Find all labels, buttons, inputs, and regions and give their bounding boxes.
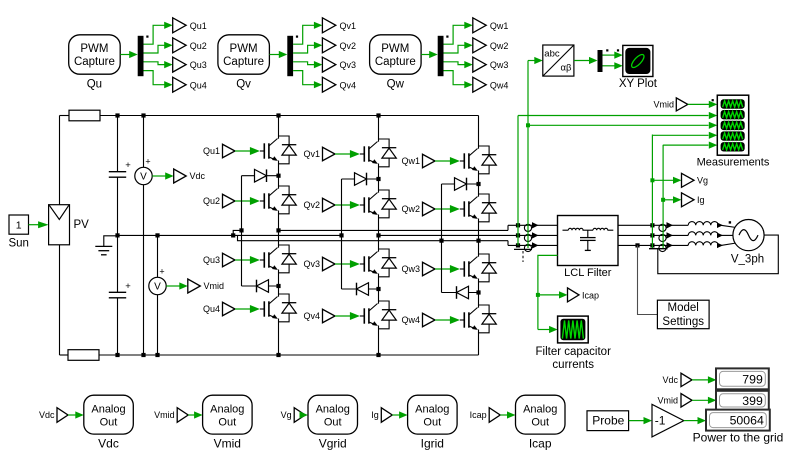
label LCL Filter: [564, 267, 612, 279]
wire top rail: [100, 115, 479, 117]
svg-text:Probe: Probe: [592, 413, 624, 427]
label Power to the grid: [693, 430, 784, 444]
label Vmid (analog out tag): [154, 410, 175, 420]
svg-text:Qv4: Qv4: [340, 80, 357, 90]
resistor bottom damping: [60, 350, 100, 361]
label Qw4: [490, 80, 509, 90]
label Qv3: [303, 259, 320, 269]
svg-text:Vmid: Vmid: [214, 437, 241, 451]
svg-text:Igrid: Igrid: [421, 437, 444, 451]
wire Qu demux out 1: [144, 22, 173, 45]
svg-text:Analog: Analog: [316, 403, 350, 415]
svg-text:Ig: Ig: [371, 410, 379, 420]
from tag Qv2: [323, 198, 336, 212]
from tag Vdc (display): [681, 373, 692, 387]
wire gate Qw3: [435, 265, 464, 273]
capacitor C1 (upper DC-link): [109, 116, 131, 236]
wire gain to display: [684, 417, 706, 424]
wire probe2 riser Ig: [662, 145, 664, 248]
goto tag Vdc: [174, 169, 187, 183]
node bottom rail / Vmid meter: [155, 353, 159, 357]
svg-text:Sun: Sun: [8, 238, 28, 250]
wire probe1 a to LCL: [534, 224, 558, 226]
node phase output leg Qv: [376, 233, 380, 237]
svg-text:Qv4: Qv4: [303, 311, 320, 321]
label Vg: [697, 176, 708, 186]
wire neutral spur lower: [238, 235, 442, 240]
svg-text:Qu4: Qu4: [203, 304, 220, 314]
demux Qu: [138, 36, 149, 77]
label Qv4: [303, 311, 320, 321]
wire LCL out c: [618, 244, 688, 246]
wire Qw to demux: [421, 51, 438, 58]
wire Ig to analog out: [392, 411, 407, 418]
node clamp lower leg Qu: [276, 284, 280, 288]
label Qv2: [340, 41, 357, 51]
display Vmid 399: [716, 391, 769, 410]
label Vg (analog out tag): [281, 410, 292, 420]
wire Vinv to scope: [518, 112, 717, 119]
wire gate Qw4: [435, 316, 464, 324]
label Icap: [529, 437, 552, 451]
svg-text:Qw1: Qw1: [401, 156, 420, 166]
node bottom rail / leg v: [376, 353, 380, 357]
node voltage tap 2 phase a: [650, 223, 654, 227]
svg-text:Vdc: Vdc: [39, 410, 55, 420]
goto tag Qv1: [322, 18, 335, 33]
from tag Qu4: [223, 302, 236, 316]
wire icap from LCL: [538, 255, 558, 329]
block Analog Out Vdc: [84, 395, 134, 434]
node model settings tap: [635, 243, 639, 247]
wire Qv demux out 1: [293, 22, 322, 45]
wire neutral clamp w to leg w: [442, 240, 479, 242]
svg-text:Vmid: Vmid: [653, 100, 674, 110]
label Vmid (measurements): [653, 100, 674, 110]
wire probe1 c to LCL: [534, 244, 558, 246]
svg-text:Vmid: Vmid: [154, 410, 175, 420]
wire Qw demux out 1: [444, 22, 473, 45]
gain -1: [652, 404, 684, 437]
wire Icap to analog out: [500, 411, 515, 418]
wire voltage riser Vinv: [517, 116, 519, 246]
node bottom rail / leg u: [276, 353, 280, 357]
inductor grid phase b: [688, 232, 723, 239]
label Vdc: [190, 171, 206, 181]
scope Measurements: [717, 95, 748, 155]
node phase output leg Qw: [476, 239, 480, 243]
label Qv4: [340, 80, 357, 90]
label Qw3: [401, 264, 420, 274]
node Ig branch: [661, 198, 665, 202]
node top rail / Vdc meter: [141, 113, 145, 117]
from tag Vmid (analog out): [177, 408, 188, 423]
svg-text:+: +: [159, 267, 164, 277]
label Vdc (display): [662, 375, 678, 385]
wire probe1 riser Iinv: [527, 61, 529, 249]
node voltage tap 1 phase a: [516, 223, 520, 227]
wire coil c to source: [718, 243, 736, 245]
svg-text:PWM: PWM: [381, 43, 409, 55]
scope XY Plot: [623, 45, 653, 76]
ammeter probe 1 phase c: [524, 242, 538, 251]
wire neutral spur upper: [233, 230, 241, 235]
voltmeter Vmid: [149, 235, 166, 355]
node phase output leg Qu: [276, 228, 280, 232]
node bottom rail / Vdc meter: [141, 353, 145, 357]
ground DC midpoint: [95, 236, 117, 255]
wire bottom rail: [99, 354, 479, 356]
wire Qu demux out 4: [144, 71, 173, 89]
label Qu2: [190, 41, 207, 51]
svg-text:Out: Out: [423, 416, 441, 428]
diode clamp upper leg Qv: [342, 173, 379, 186]
svg-text:Vdc: Vdc: [190, 171, 206, 181]
goto tag Ig: [682, 193, 695, 207]
mux XY: [598, 49, 620, 72]
wire Vmid to analog out: [188, 411, 202, 418]
svg-text:799: 799: [742, 372, 763, 386]
from tag Icap (analog out): [489, 408, 500, 423]
label Qu1: [190, 21, 207, 31]
svg-text:Qu2: Qu2: [203, 196, 220, 206]
svg-text:LCL Filter: LCL Filter: [564, 267, 612, 279]
svg-text:Qw4: Qw4: [401, 315, 420, 325]
label Qu3: [190, 60, 207, 70]
goto tag Qv3: [322, 57, 335, 72]
label Qw1: [490, 21, 509, 31]
wire mux to XY 1: [603, 52, 623, 59]
capacitor C2 (lower DC-link): [109, 235, 131, 355]
label Vmid (display): [657, 396, 678, 406]
transistor Qv2 (IGBT with diode): [364, 190, 396, 218]
svg-text:Out: Out: [218, 416, 236, 428]
from tag Qv1: [323, 147, 336, 161]
label Ig (analog out tag): [371, 410, 379, 420]
wire coil b to source: [718, 234, 733, 236]
label Qu4: [190, 80, 207, 90]
ground measurement set 2: [649, 245, 668, 248]
svg-text:Qv1: Qv1: [340, 21, 357, 31]
goto tag Qw4: [473, 77, 486, 92]
from tag Qu1: [223, 144, 236, 158]
wire clamp vertical leg Qw: [441, 184, 443, 293]
node clamp upper leg Qu: [276, 174, 280, 178]
block PWM Capture Qv: [218, 35, 270, 74]
svg-text:Qw1: Qw1: [490, 21, 509, 31]
transistor Qu2 (IGBT with diode): [264, 186, 296, 214]
svg-text:Vg: Vg: [281, 410, 292, 420]
svg-text:Measurements: Measurements: [697, 157, 770, 169]
node mid rail / Vmid meter: [155, 233, 159, 237]
display Vdc 799: [716, 368, 769, 389]
block Analog Out Vgrid: [308, 395, 358, 434]
PV module block PV: [49, 205, 70, 245]
svg-text:399: 399: [742, 394, 763, 408]
label Qu1: [203, 146, 220, 156]
svg-text:Qu: Qu: [87, 79, 102, 91]
wire Vmid to display: [692, 397, 716, 404]
wire left rail top (PV to top rail): [59, 116, 61, 205]
wire Ig branch: [663, 196, 681, 203]
node clamp lower leg Qv: [376, 287, 380, 291]
wire neutral mid to clamp v: [233, 234, 341, 236]
label Qv1: [303, 149, 320, 159]
block Analog Out Vmid: [203, 395, 253, 434]
block PWM Capture Qw: [370, 35, 422, 74]
goto tag Vg: [682, 173, 695, 187]
wire icap to scope: [538, 326, 558, 333]
resistor top damping: [60, 110, 101, 121]
transistor Qw2 (IGBT with diode): [464, 194, 496, 222]
label Qw: [387, 79, 405, 91]
label Vdc: [98, 437, 119, 451]
wire gate Qw2: [435, 205, 464, 213]
wire gate Qv4: [335, 312, 364, 320]
node voltage tap 1 phase b: [516, 233, 520, 237]
block Analog Out Icap: [516, 395, 566, 434]
diode clamp upper leg Qu: [242, 169, 279, 182]
diode clamp lower leg Qw: [442, 286, 479, 299]
node clamp upper leg Qv: [376, 177, 380, 181]
wire Qv demux out 2: [293, 42, 322, 53]
label V_3ph: [731, 254, 764, 266]
ammeter probe 2 phase c: [659, 242, 673, 251]
diode clamp upper leg Qw: [442, 178, 479, 191]
node top rail / C1: [115, 113, 119, 117]
transistor Qu3 (IGBT with diode): [264, 245, 296, 273]
svg-text:V: V: [154, 282, 161, 293]
svg-text:Qw3: Qw3: [490, 60, 509, 70]
demux Qv: [287, 36, 298, 77]
svg-text:Qu1: Qu1: [203, 146, 220, 156]
from tag Qw4: [423, 313, 436, 327]
label Vmid: [214, 437, 241, 451]
goto tag Qw2: [473, 38, 486, 53]
svg-text:Qu3: Qu3: [190, 60, 207, 70]
ammeter probe 2 phase a: [659, 222, 673, 231]
from tag Qu3: [223, 253, 236, 267]
wire gate Qv3: [335, 260, 364, 268]
scope Filter capacitor currents: [558, 316, 589, 343]
wire leg Qv backbone: [378, 116, 380, 356]
svg-text:Icap: Icap: [582, 290, 599, 300]
wire left rail bottom (PV to bottom rail): [59, 245, 61, 355]
transistor Qw1 (IGBT with diode): [464, 146, 496, 174]
voltmeter Vdc: [135, 116, 152, 356]
svg-text:Qv: Qv: [236, 79, 251, 91]
display power 50064: [706, 410, 770, 431]
node top rail / leg v: [376, 113, 380, 117]
transistor Qu1 (IGBT with diode): [264, 136, 296, 164]
goto tag Qu4: [173, 77, 186, 92]
label PV: [74, 219, 90, 231]
block Analog Out Igrid: [408, 395, 458, 434]
svg-text:Power to the grid: Power to the grid: [693, 430, 784, 444]
label Qv3: [340, 60, 357, 70]
goto tag Qu3: [173, 57, 186, 72]
label Qw3: [490, 60, 509, 70]
wire phase v: [379, 234, 525, 236]
wire gate Qu1: [235, 147, 264, 155]
node voltage tap 2 phase b: [650, 233, 654, 237]
diode clamp lower leg Qu: [242, 280, 279, 293]
wire Vg to analog out: [300, 411, 309, 418]
transistor Qv3 (IGBT with diode): [364, 249, 396, 277]
diode clamp lower leg Qv: [342, 283, 379, 296]
ammeter probe 1 phase b: [524, 232, 538, 241]
node neutral / clamp u: [239, 228, 243, 232]
node clamp upper leg Qw: [476, 182, 480, 186]
svg-text:Out: Out: [100, 416, 118, 428]
node neutral / clamp v: [339, 233, 343, 237]
label Icap (analog out tag): [470, 410, 487, 420]
from tag Qw1: [423, 154, 436, 168]
label Measurements: [697, 157, 770, 169]
svg-text:Ig: Ig: [697, 195, 705, 205]
svg-text:Qv3: Qv3: [303, 259, 320, 269]
svg-text:Qv3: Qv3: [340, 60, 357, 70]
node icap branch: [536, 293, 540, 297]
wire clamp vertical leg Qu: [241, 176, 243, 286]
wire Qv to demux: [269, 51, 287, 58]
wire coil a to source: [718, 225, 736, 227]
from tag Qw3: [423, 262, 436, 276]
svg-text:Capture: Capture: [74, 56, 115, 68]
node phase marker: [729, 221, 731, 223]
node voltage tap 2 phase c: [650, 243, 654, 247]
wire gate Qv1: [335, 150, 364, 158]
label Vmid: [204, 281, 225, 291]
wire Vdc to analog out: [68, 411, 84, 418]
source V_3ph: [733, 220, 764, 251]
node voltage tap 1 phase c: [516, 243, 520, 247]
wire Qv demux out 4: [293, 71, 322, 89]
transistor Qw4 (IGBT with diode): [464, 305, 496, 333]
svg-text:Settings: Settings: [662, 316, 704, 328]
wire Iinv to abc: [528, 57, 543, 64]
label Qu4: [203, 304, 220, 314]
wire Probe to gain: [629, 417, 652, 424]
wire Vdc to display: [692, 376, 716, 383]
block abc to alpha-beta: [543, 45, 574, 76]
svg-text:Qw: Qw: [387, 79, 405, 91]
wire Vdc meter output: [152, 172, 174, 179]
from tag Vmid (display): [681, 394, 692, 408]
wire LCL out a: [618, 224, 688, 226]
wire Sun to PV: [29, 221, 49, 228]
label Qw2: [490, 41, 509, 51]
wire grid return: [658, 235, 779, 274]
label XY Plot: [619, 78, 658, 90]
svg-text:Qv2: Qv2: [303, 200, 320, 210]
wire phase w: [479, 241, 525, 246]
ammeter probe 1 phase a: [524, 222, 538, 231]
label Qu: [87, 79, 102, 91]
goto tag Qv2: [322, 38, 335, 53]
transistor Qv4 (IGBT with diode): [364, 301, 396, 329]
wire Vmid to scope: [688, 99, 718, 108]
label Sun: [8, 238, 28, 250]
svg-text:Icap: Icap: [470, 410, 487, 420]
svg-text:+: +: [125, 160, 131, 171]
label Qu3: [203, 255, 220, 265]
svg-text:Analog: Analog: [415, 403, 449, 415]
label Qw2: [401, 204, 420, 214]
wire Qw demux out 4: [444, 71, 473, 89]
wire icap to tag: [538, 291, 568, 298]
svg-text:Out: Out: [324, 416, 342, 428]
svg-text:αβ: αβ: [561, 63, 572, 74]
goto tag Qw1: [473, 18, 486, 33]
svg-text:PV: PV: [74, 219, 90, 231]
svg-text:V_3ph: V_3ph: [731, 254, 764, 266]
wire LCL out b: [618, 234, 688, 236]
node neutral / clamp w: [439, 239, 443, 243]
svg-text:+: +: [145, 157, 150, 167]
from tag Vmid (measurements): [676, 98, 688, 111]
wire Ig to scope: [663, 142, 717, 149]
goto tag Vmid: [188, 279, 201, 293]
label Igrid: [421, 437, 444, 451]
wire Qw demux out 3: [444, 61, 473, 68]
label Qv2: [303, 200, 320, 210]
label Vgrid: [319, 437, 347, 451]
block PWM Capture Qu: [69, 35, 121, 74]
block Probe: [587, 411, 629, 431]
transistor Qv1 (IGBT with diode): [364, 139, 396, 167]
from tag Qu2: [223, 194, 236, 208]
wire abc to mux: [574, 57, 598, 64]
svg-text:Qw2: Qw2: [490, 41, 509, 51]
svg-text:+: +: [125, 281, 131, 292]
svg-text:Vmid: Vmid: [204, 281, 225, 291]
label Qu2: [203, 196, 220, 206]
label Icap: [582, 290, 599, 300]
svg-text:Vdc: Vdc: [98, 437, 119, 451]
wire Qu to demux: [120, 51, 138, 58]
from tag Ig (analog out): [381, 408, 392, 423]
svg-text:Capture: Capture: [375, 56, 416, 68]
wire leg Qu backbone: [278, 116, 280, 356]
node bottom rail / C2: [115, 353, 119, 357]
wire probe1 b to LCL: [534, 234, 558, 236]
svg-text:Analog: Analog: [210, 403, 244, 415]
label Qv1: [340, 21, 357, 31]
wire Iinv to scope: [528, 122, 717, 129]
from tag Vdc (analog out): [57, 408, 68, 423]
constant block Sun value 1: [9, 215, 29, 234]
svg-text:Qu2: Qu2: [190, 41, 207, 51]
ammeter probe 2 phase b: [659, 232, 673, 241]
wire phase u: [279, 225, 525, 230]
wire model settings: [638, 245, 658, 314]
block Model Settings: [657, 300, 709, 329]
svg-text:-1: -1: [655, 413, 666, 427]
wire voltage riser Vg: [651, 135, 653, 246]
svg-text:Qu3: Qu3: [203, 255, 220, 265]
wire clamp vertical leg Qv: [341, 179, 343, 289]
wire gate Qu4: [235, 305, 264, 313]
svg-text:Vdc: Vdc: [662, 375, 678, 385]
svg-text:Qv2: Qv2: [340, 41, 357, 51]
svg-text:XY Plot: XY Plot: [619, 78, 658, 90]
from tag Vg (analog out): [294, 408, 305, 423]
transistor Qu4 (IGBT with diode): [264, 294, 296, 322]
from tag Qw2: [423, 202, 436, 216]
label Qw1: [401, 156, 420, 166]
transistor Qw3 (IGBT with diode): [464, 254, 496, 282]
